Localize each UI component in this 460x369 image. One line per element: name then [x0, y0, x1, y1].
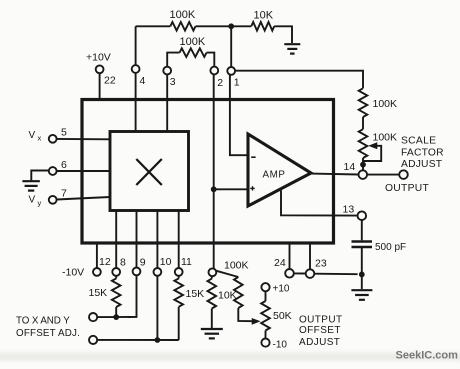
wire multiplier to pin8 [115, 211, 117, 269]
pin 6 terminal [49, 167, 57, 175]
svg-text:SeekIC.com: SeekIC.com [396, 350, 459, 362]
svg-text:10K: 10K [254, 10, 274, 22]
-10 terminal [261, 339, 269, 347]
svg-text:13: 13 [343, 204, 355, 216]
svg-text:100K: 100K [180, 36, 206, 48]
svg-text:-10: -10 [273, 340, 288, 351]
capacitor 500pF [352, 242, 373, 248]
resistor 10K offset [208, 276, 217, 308]
pin 14 label [344, 161, 356, 173]
OUTPUT label [385, 183, 430, 194]
op-amp plus input mark [250, 186, 254, 190]
wire 100K left [136, 25, 171, 27]
TO X AND Y OFFSET ADJ label [16, 316, 80, 340]
pin 9 terminal [133, 268, 141, 276]
svg-text:+10V: +10V [86, 52, 111, 64]
wire pin14 to output [367, 174, 399, 176]
svg-text:7: 7 [61, 188, 67, 200]
resistor 100K right label [373, 98, 398, 110]
svg-text:8: 8 [120, 256, 126, 268]
junction top [228, 23, 234, 29]
ground for 10K [284, 44, 300, 53]
svg-text:50K: 50K [273, 310, 292, 322]
wire box to pin24 [289, 243, 291, 269]
svg-text:V: V [29, 130, 36, 141]
wire cap to ground junction [361, 247, 363, 289]
wire box to pin12 [96, 243, 98, 268]
svg-text:1: 1 [234, 76, 240, 88]
svg-text:y: y [38, 199, 42, 208]
svg-text:100K: 100K [373, 131, 398, 143]
resistor 100K offset label [224, 259, 249, 271]
offset adj terminal 2 [89, 336, 97, 344]
junction cap-ground [359, 272, 365, 278]
wire pin7 to multiplier [57, 197, 110, 200]
-10V label [62, 266, 84, 278]
junction offset adj 2 [155, 337, 161, 343]
pin 3 label [170, 76, 176, 88]
output terminal [399, 170, 408, 179]
pin 2 label [217, 77, 223, 89]
op-amp label AMP [263, 170, 286, 181]
wire between 100K and pot [362, 117, 364, 129]
pin 7 label [61, 188, 67, 200]
-10 label [273, 340, 288, 351]
wire pin2 up to 100K [207, 53, 215, 67]
svg-text:-10V: -10V [62, 266, 84, 278]
svg-text:14: 14 [344, 161, 356, 173]
pin 2 terminal [210, 67, 218, 75]
IC outline box [82, 100, 334, 244]
resistor 100K right [359, 88, 368, 117]
wire multiplier to pin9 [136, 211, 138, 268]
wire pin4 down to multiplier [135, 73, 137, 132]
pin 1 terminal [227, 67, 235, 75]
pin 22 label [104, 75, 116, 87]
resistor 10K offset label [218, 290, 237, 302]
pin 12 terminal [93, 268, 101, 276]
svg-text:500 pF: 500 pF [375, 242, 406, 253]
svg-text:10: 10 [160, 256, 172, 268]
wire pin5 to multiplier [57, 138, 110, 140]
resistor 15K pin8 label [89, 287, 108, 299]
resistor 100K feedback [170, 22, 195, 31]
pin 14 terminal [359, 170, 368, 179]
wire junction to amp plus [214, 188, 248, 190]
wire junction to pin9 [116, 275, 136, 317]
wire box to pin23 [309, 243, 311, 269]
svg-text:15K: 15K [89, 287, 108, 299]
pin 23 label [315, 257, 327, 269]
resistor 15K pin11 label [186, 288, 205, 300]
junction pot bottom [360, 162, 366, 168]
wire pin2 down to offset node [213, 74, 215, 268]
svg-text:23: 23 [315, 257, 327, 269]
wire pin4 up to 100K [135, 26, 137, 65]
capacitor 500pF label [375, 242, 406, 253]
wire amp output to pin14 [311, 173, 359, 176]
pin 10 terminal [154, 268, 162, 276]
+10 terminal [261, 283, 269, 291]
svg-text:11: 11 [181, 256, 192, 268]
junction offset adj 1 [113, 314, 119, 320]
Vx label [29, 130, 42, 143]
pot wiper arrow [368, 142, 377, 149]
pin 13 terminal [358, 211, 367, 220]
svg-text:22: 22 [104, 75, 116, 87]
pin 23 terminal [306, 269, 315, 278]
potentiometer 50K label [273, 310, 292, 322]
potentiometer 100K scale [359, 129, 368, 158]
svg-text:6: 6 [61, 159, 67, 171]
svg-text:ADJUST: ADJUST [299, 337, 340, 348]
wire adj2 across [97, 339, 179, 341]
wire 100K to wiper [238, 308, 253, 321]
svg-text:OFFSET: OFFSET [299, 325, 341, 336]
wire 10K to ground [211, 309, 213, 329]
wire pin13 to cap [361, 220, 363, 240]
pin 10 label [160, 256, 172, 268]
resistor 10K label [254, 10, 274, 22]
svg-text:5: 5 [61, 127, 67, 139]
pin 8 label [120, 256, 126, 268]
SCALE FACTOR ADJUST label [401, 135, 444, 170]
wire multiplier to pin10 [156, 211, 158, 269]
resistor 15K pin8 [112, 276, 121, 307]
offset node terminal [209, 268, 217, 276]
wire adj1 to junction [97, 316, 116, 318]
resistor 100K offset [234, 277, 243, 308]
resistor 100K feedback label [170, 9, 196, 21]
wire pin10 down [156, 276, 158, 340]
svg-text:x: x [38, 134, 42, 143]
pin 6 label [61, 159, 67, 171]
wire 100K right to junction [196, 25, 232, 27]
OUTPUT OFFSET ADJUST label [299, 314, 343, 348]
wire multiplier to pin11 [178, 211, 180, 269]
pin 1 label [234, 76, 240, 88]
svg-text:ADJUST: ADJUST [401, 159, 443, 170]
svg-text:2: 2 [217, 77, 223, 89]
offset adj terminal 1 [89, 313, 97, 321]
svg-text:24: 24 [274, 257, 286, 269]
pin 8 terminal [112, 268, 120, 276]
svg-text:AMP: AMP [263, 170, 286, 181]
SeekIC.com watermark [396, 350, 459, 362]
wire pin1 down to amp minus input [230, 75, 248, 155]
wire +10 to pot [265, 291, 267, 301]
svg-text:15K: 15K [186, 288, 205, 300]
svg-text:+10: +10 [273, 284, 290, 295]
svg-text:9: 9 [140, 257, 146, 269]
pin 3 terminal [163, 67, 171, 75]
ground for 10K offset [201, 329, 223, 338]
wire pin6 to multiplier [57, 170, 110, 172]
wire amp to pin13 [281, 190, 358, 215]
svg-text:3: 3 [170, 76, 176, 88]
junction amp plus input [211, 186, 217, 192]
svg-text:FACTOR: FACTOR [401, 147, 444, 158]
wire pot to -10 [265, 331, 267, 339]
op-amp minus input mark [251, 156, 255, 158]
wire pin6 to ground [31, 171, 49, 181]
wire pin3 down to multiplier [166, 75, 168, 132]
Vy label [29, 195, 42, 208]
multiplier X symbol [136, 159, 162, 185]
wire pin1 up to junction [230, 26, 232, 67]
wiper arrow 50K [252, 318, 261, 325]
svg-text:SCALE: SCALE [401, 135, 436, 146]
potentiometer 100K label [373, 131, 398, 143]
+10V label [86, 52, 111, 64]
multiplier block [110, 132, 189, 211]
svg-text:100K: 100K [373, 98, 398, 110]
pin 12 label [99, 256, 111, 268]
pin 9 label [140, 257, 146, 269]
wire node to 100K [216, 271, 239, 277]
pin 4 terminal [132, 65, 140, 73]
svg-text:100K: 100K [170, 9, 196, 21]
wire pin24 to pin23 [294, 272, 306, 274]
pin 22 terminal [96, 65, 104, 73]
wire junction to pin23 [314, 273, 357, 276]
svg-text:100K: 100K [224, 259, 249, 271]
svg-text:OUTPUT: OUTPUT [385, 183, 430, 194]
pin 5 terminal [49, 135, 57, 143]
pin 7 terminal [49, 196, 57, 204]
wire pin1 to right chain [235, 71, 363, 89]
pin 13 label [343, 204, 355, 216]
resistor 100K pins 3-2 [180, 48, 207, 57]
ground for pin6 [22, 181, 39, 190]
op-amp AMP [248, 134, 311, 206]
wire pin3 up to 100K [167, 53, 179, 67]
pin 4 label [140, 75, 146, 87]
pin 11 terminal [175, 268, 183, 276]
+10 label [273, 284, 290, 295]
wire pin22 to box [99, 73, 101, 99]
wire 15K to junction [115, 307, 117, 317]
svg-text:OFFSET ADJ.: OFFSET ADJ. [16, 328, 80, 339]
resistor 10K [251, 22, 274, 31]
svg-text:12: 12 [99, 256, 111, 268]
resistor 100K pins 3-2 label [180, 36, 206, 48]
potentiometer 50K [261, 301, 270, 331]
pin 24 terminal [285, 269, 294, 278]
ground for cap [351, 290, 372, 300]
wire junction to 10K [231, 25, 251, 27]
svg-text:OUTPUT: OUTPUT [299, 314, 343, 325]
svg-text:TO X AND Y: TO X AND Y [16, 316, 70, 327]
wire pot to pin14 [362, 158, 364, 170]
pot wiper arm [363, 146, 381, 161]
wire 10K to ground [274, 26, 292, 43]
pin 5 label [61, 127, 67, 139]
svg-text:V: V [29, 195, 36, 206]
pin 11 label [181, 256, 192, 268]
svg-text:4: 4 [140, 75, 146, 87]
pin 24 label [274, 257, 286, 269]
resistor 15K pin11 [174, 276, 183, 340]
